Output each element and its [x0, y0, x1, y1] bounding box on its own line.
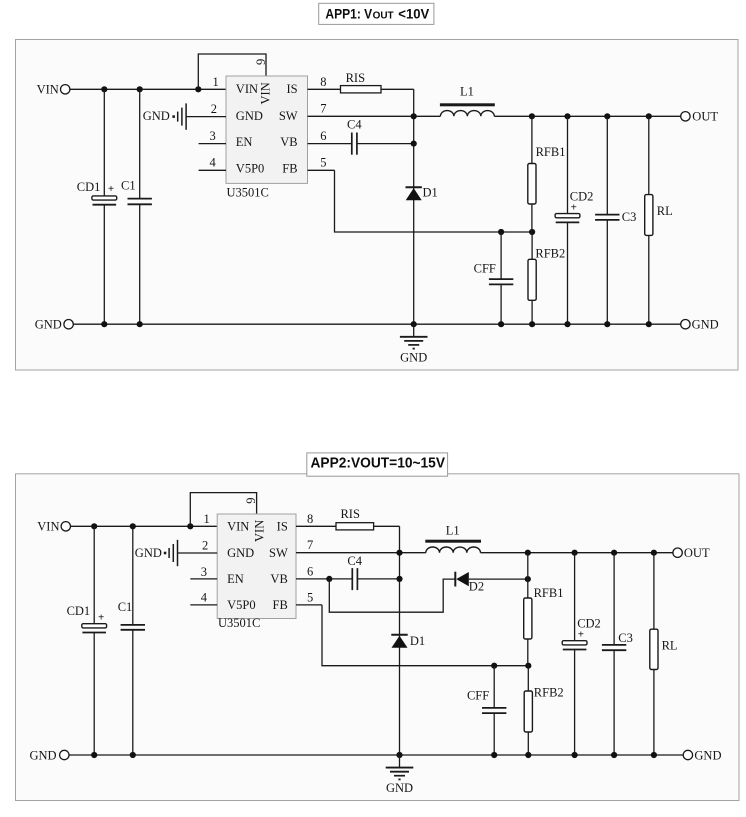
wire FB to divider 2: [322, 605, 528, 666]
svg-text:U3501C: U3501C: [218, 616, 260, 630]
svg-text:VB: VB: [280, 135, 297, 149]
capacitor C4 (APP2): [352, 568, 357, 590]
svg-text:RFB2: RFB2: [534, 686, 564, 700]
capacitor CD2 plates: [555, 214, 580, 223]
junction dot: [130, 752, 136, 758]
svg-text:RIS: RIS: [346, 71, 366, 85]
wire pin 4 stub: [199, 169, 226, 171]
junction dot: [498, 321, 504, 327]
svg-text:7: 7: [307, 538, 313, 552]
svg-text:RFB1: RFB1: [534, 586, 564, 600]
junction dot: [137, 321, 143, 327]
junction dot: [411, 113, 417, 119]
svg-text:CFF: CFF: [467, 688, 489, 702]
junction dot: [101, 321, 107, 327]
wire L1 to OUT: [494, 115, 680, 117]
wire pin 9 loop: [198, 54, 266, 89]
svg-text:5: 5: [320, 156, 326, 170]
capacitor C3 branch: [606, 116, 608, 324]
svg-text:GND: GND: [692, 318, 719, 332]
svg-text:C4: C4: [347, 117, 362, 131]
svg-text:VIN: VIN: [259, 82, 273, 104]
terminal GND right: [681, 320, 690, 329]
svg-text:VIN: VIN: [253, 520, 267, 542]
terminal GND left: [64, 320, 73, 329]
frame of APP1 schematic: [16, 40, 739, 371]
wire pin 8 to RIS: [308, 88, 341, 90]
svg-text:C3: C3: [618, 631, 633, 645]
wire FB to divider: [335, 170, 533, 232]
svg-text:GND: GND: [227, 546, 254, 560]
svg-text:CD1: CD1: [67, 604, 91, 618]
capacitor CD2 branch (APP2): [574, 553, 576, 755]
svg-text:+: +: [108, 183, 114, 195]
inductor L1 (APP2): [425, 540, 481, 553]
wire RIS to SW node: [381, 88, 414, 90]
junction dot: [564, 321, 570, 327]
capacitor CD1 plates (APP2): [82, 624, 107, 633]
wire pin 8 to RIS 2: [296, 525, 336, 527]
svg-text:SW: SW: [269, 546, 288, 560]
capacitor CD1 (APP2): [93, 526, 95, 755]
resistor RFB1 (APP2): [524, 598, 532, 639]
inductor L1: [440, 103, 495, 116]
svg-text:RL: RL: [662, 638, 678, 652]
svg-text:VB: VB: [270, 572, 287, 586]
junction dot: [491, 752, 497, 758]
wire C4 to SW node 2: [358, 578, 400, 580]
junction dot: [646, 321, 652, 327]
resistor RL branch: [648, 116, 650, 324]
wire pin 9 loop 2: [190, 493, 256, 527]
svg-text:VIN: VIN: [227, 519, 249, 533]
resistor RFB2: [528, 259, 536, 300]
resistor RFB2 branch (APP2): [527, 666, 529, 755]
ground earth symbol: [400, 324, 428, 349]
junction dot: [651, 550, 657, 556]
svg-text:1: 1: [213, 75, 219, 89]
svg-text:+: +: [98, 611, 104, 623]
svg-text:CFF: CFF: [474, 261, 496, 275]
svg-text:2: 2: [202, 538, 208, 552]
ground earth symbol (APP2): [386, 755, 414, 780]
capacitor C3 plates (APP2): [602, 645, 626, 650]
wire GND rail 2: [69, 754, 683, 756]
junction dot: [564, 113, 570, 119]
terminal GND left 2: [60, 750, 69, 759]
svg-text:8: 8: [320, 75, 326, 89]
junction dot: [529, 321, 535, 327]
diode D1: [406, 187, 422, 200]
junction dot: [611, 752, 617, 758]
capacitor C4: [352, 133, 357, 155]
junction dot: [491, 663, 497, 669]
capacitor C1 plates: [128, 199, 152, 205]
svg-text:EN: EN: [227, 572, 244, 586]
wire VIN rail 2: [71, 525, 218, 527]
svg-text:6: 6: [320, 129, 326, 143]
svg-text:GND: GND: [143, 109, 170, 123]
wire SW node vertical 2: [399, 526, 401, 755]
svg-text:6: 6: [307, 565, 313, 579]
wire SW pin to L1 2: [296, 552, 426, 554]
resistor RL (APP2): [650, 629, 658, 669]
resistor RFB1 branch: [531, 116, 533, 232]
junction dot: [396, 752, 402, 758]
svg-text:GND: GND: [236, 109, 263, 123]
capacitor CFF branch: [500, 232, 502, 324]
svg-text:U3501C: U3501C: [227, 185, 269, 199]
ground symbol at pin 2: [172, 103, 186, 129]
svg-text:3: 3: [210, 129, 216, 143]
junction dot: [572, 752, 578, 758]
junction dot: [525, 550, 531, 556]
wire SW pin to L1: [308, 115, 441, 117]
junction dot: [572, 550, 578, 556]
svg-text:5: 5: [307, 591, 313, 605]
capacitor C1: [139, 89, 141, 324]
svg-text:IS: IS: [277, 519, 288, 533]
svg-text:RFB2: RFB2: [535, 246, 565, 260]
svg-text:CD1: CD1: [77, 180, 101, 194]
svg-text:V5P0: V5P0: [236, 162, 264, 176]
svg-text:OUT: OUT: [684, 546, 710, 560]
terminal OUT 2: [673, 548, 682, 557]
svg-text:VIN: VIN: [37, 82, 59, 96]
svg-text:FB: FB: [282, 162, 297, 176]
wire VB pin to C4 2: [296, 578, 329, 580]
wire VB pin to C4 left plate: [329, 578, 351, 580]
resistor RFB2 branch: [531, 232, 533, 324]
svg-text:C4: C4: [347, 554, 362, 568]
terminal VIN 2: [61, 522, 70, 531]
svg-text:9: 9: [244, 497, 258, 503]
junction dot: [411, 141, 417, 147]
title box APP1: [319, 3, 434, 24]
capacitor CD2 branch: [567, 116, 569, 324]
svg-text:CD2: CD2: [570, 190, 594, 204]
resistor RIS (APP2): [336, 523, 374, 530]
svg-text:D1: D1: [423, 185, 438, 199]
capacitor C3 plates: [595, 215, 619, 220]
svg-text:VIN: VIN: [236, 82, 258, 96]
junction dot: [101, 86, 107, 92]
svg-text:CD2: CD2: [577, 617, 601, 631]
ground symbol at pin 2 (APP2): [164, 540, 178, 566]
wire FB pin stub 2: [296, 604, 322, 606]
svg-text:APP2:VOUT=10~15V: APP2:VOUT=10~15V: [311, 455, 446, 471]
diode D1 (APP2): [391, 635, 407, 648]
svg-text:V5P0: V5P0: [227, 598, 255, 612]
svg-text:FB: FB: [273, 598, 288, 612]
wire SW node vertical: [413, 89, 415, 324]
resistor RL branch (APP2): [653, 553, 655, 755]
junction dot: [130, 523, 136, 529]
resistor RFB2 (APP2): [524, 691, 532, 732]
terminal VIN: [60, 85, 69, 94]
svg-text:2: 2: [211, 102, 217, 116]
junction dot: [187, 523, 193, 529]
svg-text:GND: GND: [35, 318, 62, 332]
wire pin 2 stub: [186, 116, 226, 118]
junction dot: [604, 321, 610, 327]
wire RIS to SW node 2: [374, 525, 400, 527]
wire VB to D2 route: [329, 579, 455, 612]
svg-text:D1: D1: [410, 634, 425, 648]
svg-text:GND: GND: [400, 350, 427, 364]
svg-text:GND: GND: [135, 546, 162, 560]
junction dot: [525, 576, 531, 582]
svg-text:VIN: VIN: [37, 519, 59, 533]
wire pin 2 stub 2: [178, 552, 218, 554]
capacitor CD1: [103, 89, 105, 324]
junction dot: [529, 229, 535, 235]
svg-text:L1: L1: [446, 524, 460, 538]
diode D2: [455, 572, 469, 587]
junction dot: [604, 113, 610, 119]
svg-text:EN: EN: [236, 135, 253, 149]
junction dot: [525, 752, 531, 758]
junction dot: [396, 576, 402, 582]
svg-text:RIS: RIS: [340, 507, 360, 521]
capacitor CD1 plates: [92, 196, 117, 205]
svg-text:C1: C1: [121, 179, 136, 193]
svg-text:4: 4: [210, 156, 217, 170]
svg-text:3: 3: [201, 565, 207, 579]
wire FB pin stub: [308, 169, 335, 171]
capacitor C1 (APP2): [132, 526, 134, 755]
capacitor CFF plates: [489, 279, 513, 284]
junction dot: [498, 229, 504, 235]
wire pin 3 stub 2: [190, 578, 217, 580]
resistor RIS: [341, 86, 382, 93]
svg-text:RL: RL: [657, 204, 673, 218]
junction dot: [91, 523, 97, 529]
wire C4 to SW node: [357, 143, 414, 145]
wire VIN rail: [70, 88, 226, 90]
junction dot: [137, 86, 143, 92]
junction dot: [529, 113, 535, 119]
svg-text:GND: GND: [30, 748, 57, 762]
junction dot: [611, 550, 617, 556]
wire L1 to OUT 2: [481, 552, 673, 554]
svg-text:GND: GND: [386, 781, 413, 795]
junction dot: [525, 663, 531, 669]
resistor RL: [645, 195, 653, 236]
junction dot: [646, 113, 652, 119]
terminal GND right 2: [683, 750, 692, 759]
svg-text:9: 9: [254, 59, 268, 65]
svg-text:C3: C3: [622, 210, 637, 224]
wire VB pin to C4: [308, 143, 352, 145]
svg-text:7: 7: [320, 102, 326, 116]
svg-text:OUT: OUT: [692, 110, 718, 124]
svg-text:L1: L1: [460, 84, 474, 98]
op-amp U1 : IC U3501C body (APP2): [217, 514, 296, 619]
resistor RFB1: [528, 164, 536, 205]
svg-text:IS: IS: [286, 82, 297, 96]
junction dot: [326, 576, 332, 582]
svg-text:8: 8: [307, 512, 313, 526]
op-amp U1 : IC U3501C body: [226, 76, 308, 183]
svg-text:1: 1: [204, 512, 210, 526]
wire GND rail: [73, 323, 680, 325]
wire pin 3 stub: [199, 143, 226, 145]
svg-text:RFB1: RFB1: [536, 145, 566, 159]
terminal OUT: [681, 112, 690, 121]
capacitor CFF plates (APP2): [482, 708, 506, 713]
junction dot: [91, 752, 97, 758]
junction dot: [195, 86, 201, 92]
svg-text:4: 4: [201, 591, 208, 605]
junction dot: [396, 550, 402, 556]
capacitor CFF branch (APP2): [493, 666, 495, 755]
svg-text:D2: D2: [469, 580, 484, 594]
frame of APP2 schematic: [16, 474, 740, 801]
capacitor C3 branch (APP2): [613, 553, 615, 755]
capacitor CD2 plates (APP2): [562, 641, 587, 650]
svg-text:SW: SW: [279, 109, 298, 123]
wire D2 anode to RFB1 node: [469, 578, 528, 580]
svg-text:C1: C1: [118, 600, 133, 614]
title box APP2: [307, 453, 448, 476]
svg-text:GND: GND: [694, 748, 721, 762]
capacitor C1 plates (APP2): [121, 625, 145, 630]
junction dot: [651, 752, 657, 758]
resistor RFB1 branch (APP2): [527, 553, 529, 666]
wire pin 4 stub 2: [190, 604, 217, 606]
junction dot: [411, 321, 417, 327]
